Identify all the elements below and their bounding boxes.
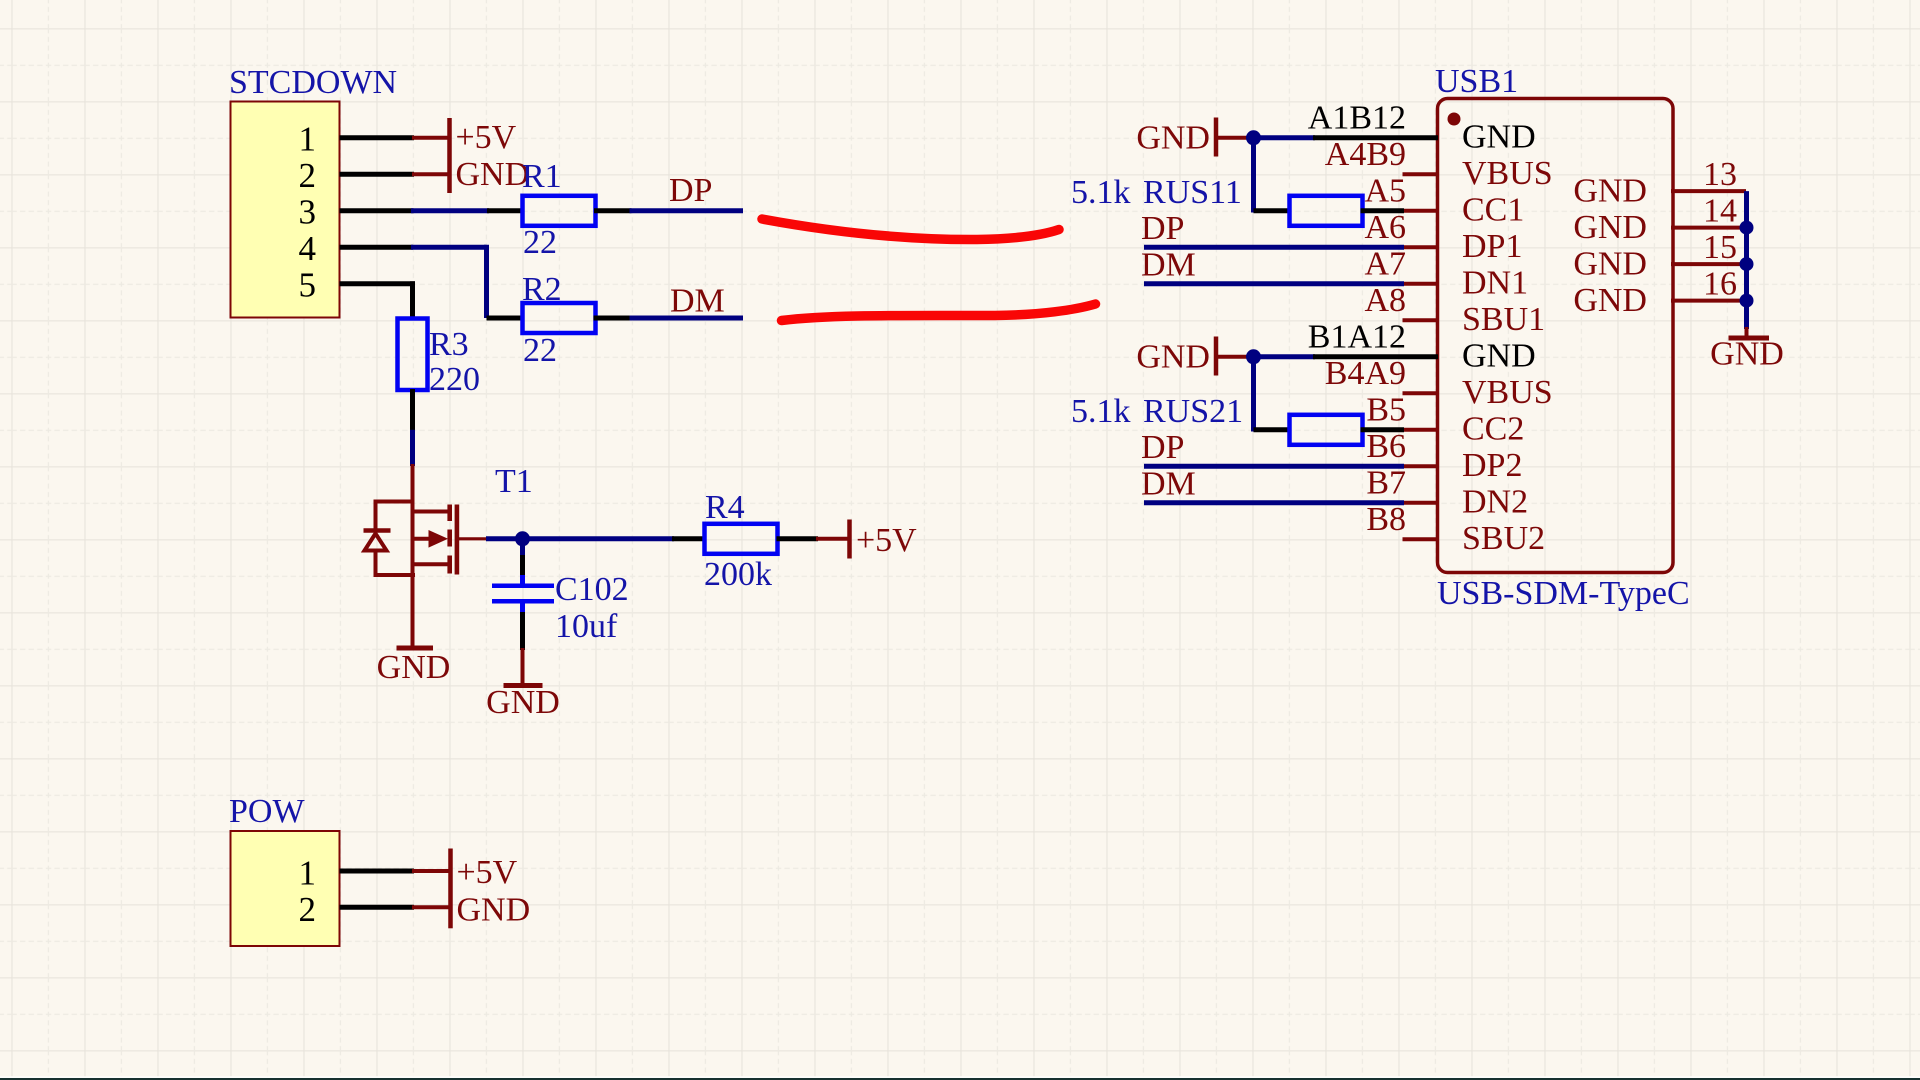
svg-text:CC2: CC2 [1462,410,1524,447]
wire R2 left lead [487,316,525,321]
pin 14 line [1671,226,1746,230]
wire net DP row B6 [1144,464,1404,469]
svg-text:DP1: DP1 [1462,228,1522,265]
ground bar under T1 [397,646,434,651]
power GND bar [447,156,452,193]
svg-text:POW: POW [229,793,305,830]
wire T1 source to ground [411,575,415,647]
svg-text:5.1k: 5.1k [1071,393,1131,430]
svg-text:GND: GND [1710,336,1784,373]
svg-text:+5V: +5V [856,522,917,559]
diode body top wire [376,500,415,504]
wire POW pin1 [340,869,415,874]
junction dot pin15 [1740,257,1754,271]
svg-text:GND: GND [1462,118,1536,155]
svg-text:5: 5 [299,265,317,304]
power +5V lead at POW [412,869,449,873]
svg-text:B7: B7 [1366,464,1406,501]
pin stub row 10 [1403,464,1439,468]
diode triangle [365,534,387,551]
wire pin3 navy [411,208,489,213]
power GND bar left-B [1214,337,1219,376]
transistor T1 gate lead [459,537,488,540]
svg-text:A8: A8 [1364,282,1406,319]
svg-text:14: 14 [1703,192,1737,229]
wire pin4 vertical [484,245,489,318]
svg-text:GND: GND [377,649,451,686]
svg-text:USB1: USB1 [1435,63,1518,100]
junction dot pin16 [1740,294,1754,308]
svg-text:DN1: DN1 [1462,264,1528,301]
svg-text:R1: R1 [522,158,562,195]
svg-text:R2: R2 [522,271,562,308]
pin stub row 11 [1403,501,1439,505]
power GND bar at POW [448,888,453,928]
wire C102 top lead [520,555,525,577]
capacitor C102 top plate [492,584,554,589]
svg-text:22: 22 [523,332,557,369]
junction node dot [515,531,530,546]
wire GND-B navy [1247,354,1315,359]
pin stub row 8 [1403,391,1439,395]
svg-text:10uf: 10uf [555,608,618,645]
svg-text:A7: A7 [1364,245,1406,282]
resistor R4 [705,524,778,554]
svg-text:A5: A5 [1364,172,1406,209]
wire right gnd vertical [1744,191,1749,329]
wire net DM row B7 [1144,500,1404,505]
transistor T1 left bus [411,510,415,578]
svg-text:RUS11: RUS11 [1143,174,1242,211]
wire gate node [486,536,674,541]
svg-text:GND: GND [457,892,531,929]
junction dot pin14 [1740,221,1754,235]
pin stub row 2 [1403,172,1439,176]
resistor RUS11 [1290,196,1363,226]
svg-text:R4: R4 [705,489,745,526]
wire C102 bottom lead [520,612,525,650]
svg-text:2: 2 [299,156,317,195]
svg-text:T1: T1 [495,463,533,500]
svg-text:DP: DP [1141,429,1184,466]
component USB1 body [1438,99,1674,573]
svg-text:200k: 200k [704,556,772,593]
bottom white separator [0,1076,1920,1078]
component USB1 pin1 marker [1448,113,1461,126]
svg-text:GND: GND [456,156,530,193]
wire net DP row A6 [1144,245,1404,250]
transistor T1 channel bar bottom [447,556,452,574]
svg-text:DP2: DP2 [1462,447,1522,484]
pin 13 line [1671,189,1746,193]
pin 16 line [1671,299,1746,303]
transistor T1 body arrow [429,530,449,548]
connector POW body [231,831,340,946]
wire R3 bottom lead [410,389,415,431]
wire GND-A vertical to RUS11 [1251,138,1256,213]
svg-text:A6: A6 [1364,209,1406,246]
wire R2 right lead [594,316,632,321]
svg-text:DM: DM [1141,247,1196,284]
wire POW pin2 [340,905,415,910]
svg-text:DP: DP [1141,210,1184,247]
power +5V lead at R4 [816,537,848,541]
pin stub row 6 [1403,318,1439,322]
pin stub row 4 [1403,245,1439,249]
svg-text:22: 22 [523,224,557,261]
transistor T1 gate bar [455,505,460,575]
svg-text:CC1: CC1 [1462,191,1524,228]
ground bar under C102 [504,683,543,688]
svg-text:B8: B8 [1366,501,1406,538]
svg-text:B1A12: B1A12 [1308,318,1406,355]
ground bar right [1729,336,1770,341]
wire node to C102 [520,539,525,557]
power +5V lead [412,136,449,140]
wire pin4 lead [340,245,414,250]
transistor T1 bottom stub [411,562,452,566]
svg-text:5.1k: 5.1k [1071,174,1131,211]
power +5V bar [447,118,452,156]
svg-text:+5V: +5V [457,854,518,891]
transistor T1 channel bar middle [447,530,452,547]
svg-text:SBU2: SBU2 [1462,520,1545,557]
wire RUS21 right lead [1361,427,1405,432]
wire B1A12 black [1313,354,1438,359]
wire R1 right lead [594,208,632,213]
svg-text:DM: DM [670,283,725,320]
power +5V bar at R4 [847,520,852,559]
wire RUS21 left lead [1254,427,1292,432]
svg-text:C102: C102 [555,571,629,608]
svg-text:GND: GND [1573,282,1647,319]
svg-text:DP: DP [669,172,712,209]
resistor RUS21 [1290,415,1363,445]
power +5V bar at POW [448,849,453,889]
svg-text:GND: GND [1573,246,1647,283]
svg-text:3: 3 [299,192,317,231]
power GND bar left-A [1214,118,1219,157]
svg-text:GND: GND [1136,120,1210,157]
svg-text:SBU1: SBU1 [1462,301,1545,338]
power GND lead right [1745,327,1749,337]
pin stub row 5 [1403,282,1439,286]
wire R3 to T1 [410,430,415,466]
resistor R3 [398,319,428,391]
svg-text:13: 13 [1703,156,1737,193]
svg-text:+5V: +5V [456,119,517,156]
wire net DP [630,208,744,213]
wire RUS11 right lead [1361,208,1405,213]
svg-text:GND: GND [1462,337,1536,374]
svg-text:220: 220 [429,361,480,398]
svg-text:DN2: DN2 [1462,483,1528,520]
svg-text:GND: GND [1573,209,1647,246]
wire GND-B vertical to RUS21 [1251,357,1256,432]
pin stub row 12 [1403,537,1439,541]
svg-text:16: 16 [1703,265,1737,302]
transistor T1 top stub [411,510,452,514]
diode body vertical top [374,500,378,531]
svg-text:B5: B5 [1366,391,1406,428]
diode cathode bar [364,528,391,533]
power GND lead at POW [412,905,449,909]
capacitor C102 top pin [520,575,525,584]
svg-text:4: 4 [299,229,317,268]
bottom dark taskbar edge [0,1078,1920,1080]
svg-text:B4A9: B4A9 [1325,355,1406,392]
svg-text:DM: DM [1141,466,1196,503]
wire R1 left lead [487,208,524,213]
svg-text:GND: GND [1573,173,1647,210]
svg-text:GND: GND [486,684,560,721]
pin stub row 3 [1403,209,1439,213]
svg-text:2: 2 [299,890,317,929]
power GND lead left-A [1218,136,1249,140]
pin 15 line [1671,262,1746,266]
svg-text:A4B9: A4B9 [1325,136,1406,173]
wire pin5 lead [340,281,416,286]
red freehand mark over DM [782,304,1096,321]
wire pin1 to +5V [340,135,415,140]
power GND lead left-B [1218,355,1249,359]
wire RUS11 left lead [1254,208,1292,213]
svg-text:15: 15 [1703,229,1737,266]
svg-text:1: 1 [299,119,317,158]
connector STCDOWN body [231,102,340,318]
transistor T1 body line [411,537,430,541]
wire R4 left lead [672,536,706,541]
svg-text:VBUS: VBUS [1462,155,1553,192]
wire pin3 lead [340,208,414,213]
wire net DM row A7 [1144,281,1404,286]
diode body vertical bottom [374,551,378,578]
transistor T1 channel bar top [447,505,452,522]
wire pin5 vertical [410,281,415,319]
svg-text:R3: R3 [429,326,469,363]
capacitor C102 bottom pin [520,603,525,614]
red freehand mark over DP [762,219,1059,240]
svg-text:USB-SDM-TypeC: USB-SDM-TypeC [1437,575,1690,612]
pin stub row 9 [1403,428,1439,432]
svg-text:STCDOWN: STCDOWN [229,64,397,101]
diode body bottom wire [374,573,416,577]
resistor R2 [523,303,596,333]
power GND lead [412,172,449,176]
svg-text:A1B12: A1B12 [1308,99,1406,136]
junction dot B [1246,349,1261,364]
capacitor C102 bottom plate [492,599,554,604]
wire pin2 to GND [340,172,415,177]
junction dot A [1246,130,1261,145]
wire pin4 navy [411,245,487,250]
wire GND-A navy [1247,135,1315,140]
svg-text:1: 1 [299,854,317,893]
svg-text:VBUS: VBUS [1462,374,1553,411]
svg-text:GND: GND [1136,339,1210,376]
resistor R1 [523,196,596,226]
wire R4 right lead [777,536,819,541]
transistor T1 drain pin [411,464,415,512]
svg-text:RUS21: RUS21 [1143,393,1243,430]
wire net DM [630,316,744,321]
svg-text:B6: B6 [1366,428,1406,465]
wire A1B12 black [1313,135,1438,140]
wire C102 to ground [521,648,525,684]
